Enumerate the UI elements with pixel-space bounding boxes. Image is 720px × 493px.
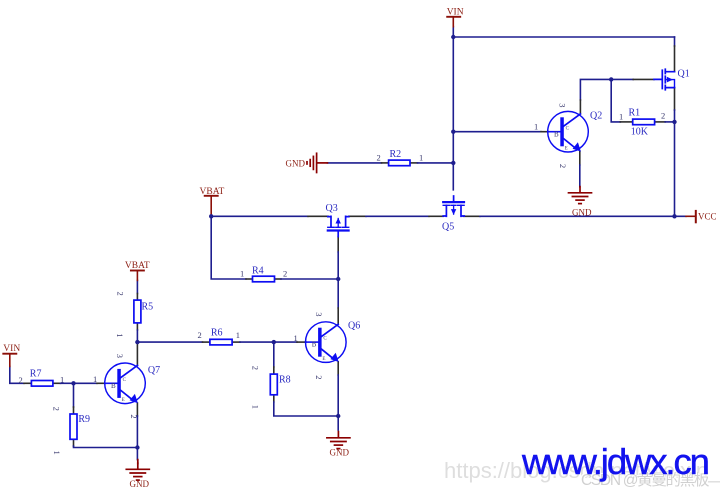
wire R2 line left [327,162,381,164]
svg-text:2: 2 [283,269,287,279]
wire gate node down to R1 [611,79,620,122]
svg-text:1: 1 [236,330,240,340]
watermark url line [444,460,720,482]
wire VIN left column [10,366,24,383]
pin R5.2 [136,294,138,301]
svg-text:2: 2 [314,375,324,379]
svg-text:1: 1 [534,122,538,132]
svg-text:1: 1 [115,333,125,337]
pin Q7 collector [136,342,138,365]
resistor R6 [198,328,241,345]
svg-text:R5: R5 [142,301,154,312]
svg-text:2: 2 [19,375,23,385]
junction node VBAT rail [209,214,213,218]
pin Q1 drain [674,46,676,72]
svg-text:1: 1 [419,152,423,162]
wire R6 to R8 node [240,341,297,343]
power port VIN top [447,7,464,26]
pin R2.1 [410,162,418,164]
svg-text:2: 2 [661,111,665,121]
wire top rail VIN [453,36,674,38]
pin Q1 source [674,88,676,110]
wire Q2 collector to gate node [580,79,633,100]
power port VIN left [3,344,20,366]
junction node gate Q1 [609,77,613,81]
wire R8 column [273,342,275,367]
wire Q6 emitter to GND [337,375,339,430]
pin Q6 emitter [337,362,339,375]
pin R4.1 [246,278,253,280]
svg-text:2: 2 [129,414,139,418]
wire Q2 emitter to GND [579,165,581,187]
svg-text:GND: GND [330,448,350,458]
resistor R9 [52,407,91,455]
svg-text:R6: R6 [211,328,223,339]
svg-text:GND: GND [572,207,592,217]
wire R1.2 to source column [665,121,674,123]
junction node R8 base [272,340,276,344]
pin R8.2 [273,367,275,374]
resistor R5 [115,292,153,338]
wire VBAT rail [211,215,308,217]
svg-text:3: 3 [314,312,324,316]
wire VCC rail from Q5 [464,215,480,217]
svg-text:2: 2 [250,366,260,370]
wire R8 bottom to Q6 emitter [274,402,338,416]
junction node R9 base [71,381,75,385]
svg-text:1: 1 [294,333,298,343]
svg-text:10K: 10K [631,127,649,138]
mosfet Q1 [654,69,690,90]
svg-text:R4: R4 [252,266,264,277]
svg-text:R7: R7 [30,369,42,380]
watermark site [522,444,708,481]
svg-text:R2: R2 [390,149,402,160]
resistor R1 [619,108,665,138]
power port VBAT mid [200,187,225,217]
svg-text:R1: R1 [629,108,641,119]
wire node to R6 [137,341,202,343]
resistor R2 [377,149,424,166]
wire R5 to node [136,330,138,342]
watermark csdn [581,473,708,489]
svg-text:Q7: Q7 [148,365,160,376]
power port VBAT left [125,261,150,280]
pin R7.1 [53,382,61,384]
svg-text:Q1: Q1 [678,69,690,80]
wire Q1 source down to VCC rail [674,110,676,216]
pin Q3 source side [349,215,366,217]
svg-text:VIN: VIN [3,344,20,354]
transistor Q7 [93,354,160,419]
pin Q5 left [429,215,443,217]
junction node VIN rail [451,35,455,39]
pin R7.2 [24,382,31,384]
ground under Q6 [327,432,350,458]
wire rail to VCC port [480,215,686,217]
wire Q7 emitter to GND [136,416,138,460]
wire Q3 to Q5 [366,215,429,217]
junction node R5 R6 [135,340,139,344]
svg-text:2: 2 [377,152,381,162]
wire VIN top vertical (net VIN to Q5 gate) [452,27,454,190]
svg-text:2: 2 [198,330,202,340]
junction node R4 gate [336,277,340,281]
pin Q3 drain side [308,215,328,217]
pin R9.1 [73,439,75,446]
wire R9 bottom to Q7 emitter [74,446,138,448]
svg-text:3: 3 [115,354,125,358]
wire node to Q7 base [74,382,98,384]
svg-text:1: 1 [60,374,64,384]
svg-text:Q5: Q5 [442,222,454,233]
pin R1.2 [655,121,666,123]
resistor R4 [240,266,287,282]
pin R5.1 [136,323,138,330]
resistor R7 [19,369,65,387]
pin R1.1 [620,121,632,123]
svg-text:Q2: Q2 [590,111,602,122]
svg-text:R8: R8 [279,375,291,386]
svg-text:1: 1 [240,269,244,279]
svg-text:1: 1 [52,451,62,455]
junction node Q2 base [451,130,455,134]
ground sideways at R2 [286,153,328,172]
pin Q2 base [541,131,548,133]
svg-text:R9: R9 [78,414,90,425]
junction node R8 emitter [336,414,340,418]
pin R6.2 [203,341,210,343]
wire R7 to R9 node [61,382,74,384]
pin Q7 emitter [136,403,138,416]
wire R4.2 to gate column [281,278,338,280]
mosfet Q5 [442,196,464,233]
pin Q6 base [297,341,306,343]
svg-text:Q3: Q3 [326,203,338,214]
transistor Q2 [534,103,602,168]
pin Q1 gate [633,78,654,80]
wire VBAT column down [211,216,246,279]
junction node R9 emitter [135,445,139,449]
junction node R2 [451,161,455,165]
pin R9.2 [73,407,75,414]
ground under Q2 [569,187,592,218]
svg-text:VCC: VCC [698,212,717,222]
pin R8.1 [273,395,275,402]
wire Q2 base line [453,131,541,133]
junction node VCC rail [672,214,676,218]
pin R4.2 [275,278,282,280]
svg-text:2: 2 [558,164,568,168]
pin Q6 collector [337,308,339,324]
ground under Q7 [126,463,149,489]
svg-text:2: 2 [52,407,62,411]
pin Q2 emitter [579,151,581,165]
wire R2 to VIN column [418,162,454,164]
wire Q1 drain drop [674,37,676,46]
svg-text:Q6: Q6 [348,321,360,332]
resistor R8 [250,366,290,409]
power port VCC [686,211,717,222]
junction node R1 source [672,120,676,124]
pin Q3 gate [337,237,339,252]
svg-text:GND: GND [130,479,150,489]
svg-text:1: 1 [619,111,623,121]
mosfet Q3 [326,203,349,237]
wire R9 column [73,383,75,407]
svg-text:3: 3 [558,103,568,107]
svg-text:2: 2 [116,292,126,296]
svg-text:1: 1 [93,374,97,384]
transistor Q6 [294,312,361,379]
pin Q2 collector [579,100,581,114]
pin R6.1 [232,341,240,343]
wire R5 column VBAT [136,280,138,293]
svg-text:1: 1 [250,405,260,409]
svg-text:GND: GND [286,158,306,168]
pin R2.2 [382,162,389,164]
wire Q3 gate to R4 node to Q6 [337,252,339,308]
pin Q7 base [97,382,105,384]
